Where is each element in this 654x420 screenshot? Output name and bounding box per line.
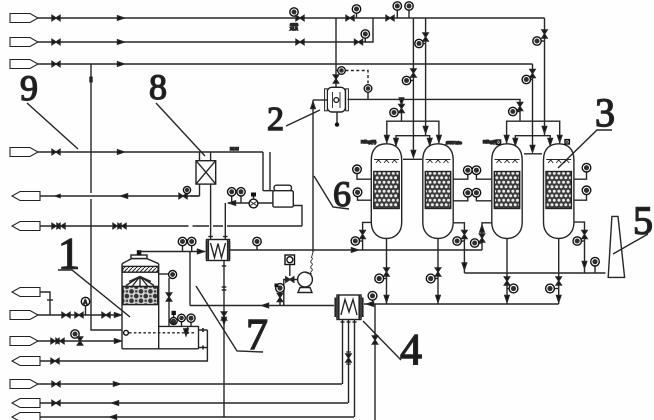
svg-text:R№g(Ø: R№g(Ø bbox=[483, 139, 497, 144]
spray feed instrument bbox=[169, 271, 177, 279]
R3R4 outer manifold bbox=[507, 121, 560, 143]
HX8 bottom left drain bbox=[199, 184, 201, 196]
sump right stubs to drain loop bbox=[199, 330, 208, 348]
svg-text:G: G bbox=[171, 320, 175, 326]
R3 bottom drop bbox=[506, 239, 508, 305]
arrow to HX7 bbox=[229, 201, 236, 205]
riser x313 to vessel 2 bbox=[312, 100, 314, 252]
vessel 2 bbox=[325, 87, 349, 112]
level gauge circle bbox=[124, 330, 129, 335]
drop into HX7 bbox=[224, 203, 226, 237]
valve on stream 4 bbox=[52, 149, 60, 154]
valve stream 9 b bbox=[77, 337, 82, 345]
reactor R2 bbox=[423, 144, 453, 239]
instrument on x532.5 drop bbox=[530, 79, 533, 81]
drop x413 to R1R2 shoulder header bbox=[412, 18, 414, 156]
reactor R4 bbox=[544, 144, 574, 239]
HX7 end flanges bbox=[207, 240, 230, 260]
svg-text:R№g(Ø): R№g(Ø) bbox=[361, 139, 377, 144]
instrument on vessel2 feed bbox=[336, 70, 338, 72]
header flow arrow bbox=[352, 248, 359, 252]
flow arrow stream 4 bbox=[118, 150, 125, 154]
stream 5 flag bbox=[12, 192, 40, 201]
R3R4 shoulder header bbox=[524, 153, 542, 155]
instrument on header bbox=[256, 246, 258, 251]
stream 7 line drops to stream 8 bbox=[40, 292, 50, 315]
valve on stream 3 bbox=[52, 61, 60, 66]
instrument on x425.6 bbox=[423, 43, 426, 45]
vessel 2 outlet line to reactors bbox=[348, 99, 520, 121]
arrow stream 11 bbox=[114, 382, 121, 386]
stream 2 line bbox=[38, 18, 373, 42]
sump top instrument cluster bbox=[172, 311, 176, 315]
stream 5 line bbox=[40, 195, 200, 197]
blower body bbox=[273, 191, 293, 207]
HX7 bottom drain long vertical bbox=[223, 261, 225, 418]
HX7 W coil bbox=[211, 243, 226, 258]
vessel 2 feed drop from stream1 bbox=[335, 18, 337, 87]
R2R3 between instruments bbox=[453, 174, 492, 179]
control valve body bbox=[249, 199, 258, 208]
svg-text:KOH: KOH bbox=[230, 146, 239, 151]
valve on x401.5 bbox=[399, 105, 404, 113]
heat exchanger HX8 body bbox=[196, 161, 216, 184]
valve stream 11 bbox=[52, 381, 60, 386]
instrument on x520 drop bbox=[517, 111, 521, 113]
valve on x544.5 bbox=[542, 30, 547, 38]
R4 side instruments bbox=[574, 172, 587, 200]
stream 6 line bbox=[40, 225, 302, 227]
KOH drop to blower bbox=[263, 152, 273, 191]
valve stream 8 b bbox=[75, 312, 83, 317]
HX4 M coil bbox=[341, 300, 357, 316]
spray feed drop bbox=[168, 278, 170, 326]
spray feed from right bbox=[159, 273, 169, 275]
R3 dome box bbox=[496, 140, 500, 144]
stream 11 flag bbox=[10, 380, 38, 389]
level arrow bbox=[185, 328, 187, 333]
instrument on x413.4 drop bbox=[410, 80, 413, 82]
control valve actuator bbox=[253, 197, 255, 200]
valve on vessel2 feed bbox=[333, 75, 338, 83]
label 1 pointer bbox=[58, 270, 130, 317]
vessel 2 drain bbox=[336, 112, 338, 123]
valves stream 9 bbox=[51, 338, 59, 343]
reactor R3 bbox=[492, 144, 522, 239]
stream 3 line bbox=[38, 63, 533, 65]
label 4 pointer bbox=[363, 321, 401, 360]
pump suction header bbox=[190, 305, 334, 307]
svg-text:ØSTC/re: ØSTC/re bbox=[446, 140, 463, 145]
arrow into sump bbox=[115, 339, 122, 343]
label 8 pointer bbox=[156, 103, 205, 156]
R1 side instruments bbox=[357, 174, 371, 201]
valve on x413.4 drop bbox=[411, 69, 416, 77]
drop from header to lower pass line bbox=[463, 250, 465, 273]
svg-text:3: 3 bbox=[595, 90, 615, 135]
HX4 bottom stubs bbox=[343, 320, 355, 418]
stream 11 line to HX4 bbox=[38, 383, 342, 385]
drop x532.5 to R3R4 shoulder header bbox=[532, 64, 534, 151]
stream 1 flag bbox=[10, 14, 38, 23]
arrow stream 13 left bbox=[110, 415, 117, 419]
svg-text:8: 8 bbox=[149, 67, 167, 107]
R4 side outlet to chimney line bbox=[574, 222, 585, 273]
pump bbox=[298, 272, 313, 287]
valve stream1 at 299 bbox=[296, 15, 304, 20]
label 7 pointer bbox=[196, 286, 263, 352]
label 5 pointer bbox=[613, 234, 648, 254]
column 1 dome bbox=[122, 259, 159, 264]
small arrow stream 5 bbox=[55, 194, 60, 198]
valve stream 8 a bbox=[62, 312, 70, 317]
svg-text:2: 2 bbox=[267, 101, 284, 138]
HX7 inlet from column top bbox=[141, 251, 205, 253]
dashed signal line from vessel2 instrument bbox=[346, 71, 369, 85]
column sump extension bbox=[122, 326, 199, 348]
header vertical x91 bbox=[91, 64, 122, 330]
stream 7 flag bbox=[12, 288, 40, 297]
instrument at riser bbox=[364, 38, 366, 42]
stream 12 flag bbox=[12, 399, 40, 408]
column packed bed bbox=[123, 286, 158, 304]
stream 12 line from HX4 bbox=[40, 402, 348, 404]
valve on x532.5 drop bbox=[530, 70, 535, 78]
R1R2 shoulder header bbox=[403, 158, 422, 160]
stream 6 flag bbox=[12, 222, 40, 231]
R1R2 inner manifold bbox=[396, 136, 430, 146]
column hatch band bbox=[123, 266, 159, 272]
instrument box near HX7 outlet bbox=[285, 255, 295, 265]
spray distributor bbox=[126, 277, 154, 288]
HX8 cross bbox=[196, 161, 216, 184]
valve on x425.6 bbox=[423, 33, 428, 41]
chimney line instrument bbox=[594, 266, 596, 273]
instrument on product header bbox=[372, 300, 374, 304]
stream 8 line into column bbox=[38, 314, 120, 316]
heat exchanger HX7 body bbox=[207, 240, 230, 261]
svg-text:4: 4 bbox=[400, 325, 422, 374]
stream 9 line into sump bbox=[38, 340, 120, 342]
HX4 right bypass drop bbox=[374, 304, 376, 420]
tee from overhead line down to pump suction bbox=[189, 252, 191, 306]
valve stream 10 bbox=[51, 358, 59, 363]
stream 3 flag bbox=[10, 60, 38, 69]
HX4 end flanges bbox=[337, 296, 361, 320]
R2 side outlet to header bbox=[453, 223, 464, 250]
reactor R1 bbox=[371, 144, 401, 239]
label 9 pointer bbox=[27, 103, 78, 149]
instrument pair above stream1 bbox=[397, 10, 409, 18]
lower pass line to chimney bbox=[464, 272, 605, 274]
column overhead stub bbox=[139, 251, 141, 253]
vessel 2 inlet from riser bbox=[313, 99, 327, 101]
instrument on vessel2 outlet bbox=[364, 85, 372, 93]
drop x425.6 to R1R2 inner manifold bbox=[425, 18, 427, 136]
valve stream1 at 350 bbox=[346, 15, 354, 20]
drop x544.5 to R3R4 inner manifold bbox=[544, 18, 546, 136]
column 1 shell bbox=[122, 264, 159, 349]
valve on pump suction stub bbox=[286, 277, 294, 282]
valve on drain bbox=[179, 193, 187, 198]
HX8 top stubs to KOH line bbox=[200, 152, 211, 161]
heat exchanger HX4 body bbox=[337, 295, 361, 320]
svg-text:9: 9 bbox=[20, 68, 38, 108]
blower cap bbox=[274, 185, 292, 191]
product header to HX4 bbox=[364, 303, 559, 305]
HX8 drain to stream5 bbox=[190, 195, 200, 197]
valve stream2 riser bbox=[355, 39, 363, 44]
column top cap bbox=[131, 255, 147, 259]
HX8 bottom right to HX7 bbox=[210, 184, 212, 236]
R4 dome box bbox=[565, 140, 569, 144]
R1R2 outer manifold bbox=[387, 121, 439, 143]
svg-text:XLR: XLR bbox=[290, 26, 298, 31]
flow arrow stream 5 left bbox=[121, 194, 128, 198]
pump discharge coil to vessel2 riser bbox=[305, 272, 312, 274]
flow arrow stream 2 bbox=[118, 40, 125, 44]
stream 10 flag bbox=[12, 357, 40, 366]
arrow stream 12 left bbox=[112, 401, 119, 405]
label 2 pointer bbox=[286, 110, 320, 126]
stream 13 flag bbox=[12, 413, 40, 420]
stream 2 flag bbox=[10, 38, 38, 47]
feed drop x401.5 from vessel2 line to outer manifold bbox=[401, 99, 403, 121]
valve stream 8 c bbox=[102, 312, 110, 317]
sump level dashed line bbox=[129, 332, 196, 334]
label 6 pointer bbox=[314, 176, 349, 209]
instrument on drain bbox=[186, 193, 188, 197]
R1 side outlet to header bbox=[363, 222, 372, 250]
stream 8 flag bbox=[10, 311, 38, 320]
instrument above 350 bbox=[356, 13, 358, 18]
arrow on x401.5 bbox=[399, 98, 403, 105]
valves on stream 6 bbox=[52, 223, 60, 228]
blower outlet loop to stream6 bbox=[293, 206, 302, 227]
HX7 top nozzle stubs bbox=[211, 237, 226, 240]
blower suction line with control valve bbox=[228, 202, 273, 204]
instrument on stream1 left bbox=[290, 8, 298, 16]
stream 4 flag bbox=[10, 148, 38, 157]
pump suction pipe bbox=[284, 280, 298, 306]
column top nozzle bbox=[137, 250, 142, 255]
stream 10 line from sump loop bbox=[40, 330, 207, 361]
svg-text:A: A bbox=[83, 300, 87, 306]
header riser into R3 bbox=[482, 223, 492, 250]
R1 bottom drop bbox=[386, 239, 388, 305]
stream 13 line from HX4 bbox=[40, 416, 354, 418]
R2 bottom drop bbox=[437, 239, 439, 305]
valve stream1 at 390 bbox=[386, 15, 394, 20]
stream 4 KOH line bbox=[38, 151, 263, 153]
valve on spray drop bbox=[166, 293, 171, 301]
stream 9 flag bbox=[10, 337, 38, 346]
flow arrow stream 3 bbox=[118, 62, 125, 66]
flange tick stream 7 bbox=[47, 299, 53, 301]
valves on stream 6 mid bbox=[113, 223, 121, 228]
flow arrow stream 1 bbox=[118, 16, 125, 20]
HX7 outlet header to reactors bbox=[230, 249, 483, 251]
instrument on x544.5 bbox=[541, 40, 545, 42]
arrow into column bbox=[115, 313, 122, 317]
flange tick bbox=[208, 236, 213, 238]
instrument A on stream 8 bbox=[85, 306, 87, 315]
instrument on x401.5 bbox=[397, 112, 402, 114]
valve on stream 2 mid bbox=[296, 39, 304, 44]
tick label on x91 bbox=[89, 77, 92, 83]
label 3 pointer bbox=[558, 130, 612, 168]
valve on HX4 middle stub bbox=[346, 354, 351, 362]
chimney 5 bbox=[608, 216, 624, 277]
instrument on stream 9 bbox=[71, 330, 79, 338]
R4 bottom drop bbox=[558, 239, 560, 305]
sump internal divider bbox=[187, 326, 189, 334]
valve stream 12 bbox=[52, 400, 60, 405]
instrument pair above column overhead bbox=[183, 246, 192, 252]
valve on x520 drop bbox=[517, 103, 522, 111]
valve on stream 2 bbox=[52, 39, 60, 44]
instrument hanging on suction header bbox=[276, 284, 285, 293]
stream 1 line bbox=[38, 17, 545, 19]
R3R4 inner manifold bbox=[515, 136, 550, 146]
instrument pair above suction bbox=[232, 196, 241, 203]
valve on stream 1 bbox=[52, 15, 60, 20]
